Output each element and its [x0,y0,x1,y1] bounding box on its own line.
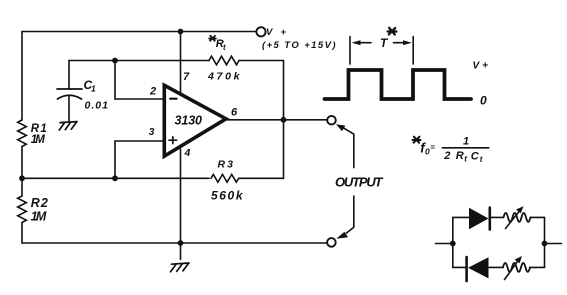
wire left rail lower [21,223,23,244]
node pin6 junction [281,117,287,123]
wire pin 4 vertical [180,149,182,260]
formula asterisk [413,137,421,143]
wire top rail V+ [22,31,256,33]
wire C1 to Rt feedback [69,60,209,62]
capacitor C1 top plate [57,88,82,90]
svg-text:1: 1 [91,84,96,94]
arrow into bottom output jack [347,196,354,233]
wire diode network entry [436,243,453,245]
svg-text:R1: R1 [31,123,47,135]
svg-text:OUTPUT: OUTPUT [335,175,384,190]
resistor Rt 470k [209,56,239,65]
node left mid junction [19,175,25,181]
svg-text:0: 0 [480,93,487,107]
svg-text:3: 3 [149,127,155,138]
op-amp minus sign [170,98,176,100]
wire pin 3 horizontal [115,140,164,142]
svg-text:560k: 560k [211,188,244,202]
variable resistor top arrow [506,211,520,229]
svg-text:t: t [464,154,467,163]
label T asterisk [388,28,397,35]
node diode network right [542,241,548,247]
capacitor C1 stem top [68,61,70,90]
node ground junction [178,240,184,246]
svg-text:V +: V + [473,61,489,72]
variable resistor top squiggle [504,213,531,222]
arrow into top output jack [343,128,354,168]
diode D1 (points right) [469,208,489,229]
label Rt asterisk [209,36,216,41]
node diode network left [450,241,456,247]
svg-text:2: 2 [149,86,156,98]
variable resistor bottom arrow [505,260,519,280]
dimension arrow right [394,42,406,44]
terminal output bottom [327,238,336,247]
svg-text:C: C [471,151,480,163]
ground under C1 [59,122,77,130]
wire top branch left [453,216,469,218]
wire diode network left vertical [452,217,454,267]
svg-text:4: 4 [184,147,191,159]
wire Rt to right vertical [239,60,284,62]
resistor R3 [211,174,239,182]
dimension arrow left [358,42,371,44]
wire bottom branch right [530,266,545,268]
node C1/pin2 junction [112,58,118,64]
wire pin 2 vertical [114,61,116,100]
wire bottom rail [22,242,327,244]
waveform tick left [349,37,351,65]
wire R3 to right vertical [239,177,284,179]
svg-text:R3: R3 [218,158,234,170]
formula fraction bar [442,147,489,149]
svg-text:1M: 1M [31,210,47,224]
ground under pin 4 [171,263,190,272]
waveform tick right [412,37,414,65]
wire pin 7 drop [180,32,182,95]
diode D2 (points left) [465,257,468,281]
wire top branch mid [491,216,504,218]
svg-text:0.01: 0.01 [85,100,109,112]
wire bottom branch mid [489,266,504,268]
svg-text:7: 7 [183,71,190,83]
waveform square wave [325,70,472,99]
svg-text:470k: 470k [207,71,241,83]
resistor R2 [18,196,27,222]
wire diode network exit [545,243,562,245]
terminal V+ [256,27,265,36]
wire pin 6 output [226,119,327,121]
node pin3/R divider junction [112,175,118,181]
svg-text:V +: V + [266,27,286,38]
terminal output top [327,116,336,125]
wire left rail mid [21,147,23,197]
op-amp U1 triangle [164,85,226,156]
svg-text:1M: 1M [31,134,45,146]
wire pin 2 horizontal [115,98,164,100]
wire hysteresis rail [22,177,209,179]
svg-text:1: 1 [463,135,469,147]
wire right vertical (Rt to pin6 node to R3) [283,61,285,179]
wire top branch right [531,216,545,218]
wire pin 3 vertical [114,141,116,178]
capacitor C1 bottom plate [58,95,82,99]
svg-text:6: 6 [231,106,238,118]
resistor R1 [18,120,27,146]
svg-text:=: = [430,143,435,152]
svg-text:t: t [480,155,483,164]
svg-text:R2: R2 [31,196,48,210]
svg-text:t: t [223,43,226,52]
wire bottom branch left [453,266,465,268]
svg-text:R: R [456,150,464,162]
svg-text:(+5 TO +15V): (+5 TO +15V) [262,40,336,51]
wire left rail upper [21,32,23,121]
node top rail junction [178,29,184,35]
wire diode network right vertical [544,217,546,267]
op-amp plus sign [169,137,177,144]
variable resistor bottom squiggle [503,263,530,272]
svg-text:T: T [380,36,389,50]
capacitor C1 stem bottom [68,96,70,121]
svg-text:2: 2 [443,150,450,162]
svg-text:3130: 3130 [175,113,203,127]
